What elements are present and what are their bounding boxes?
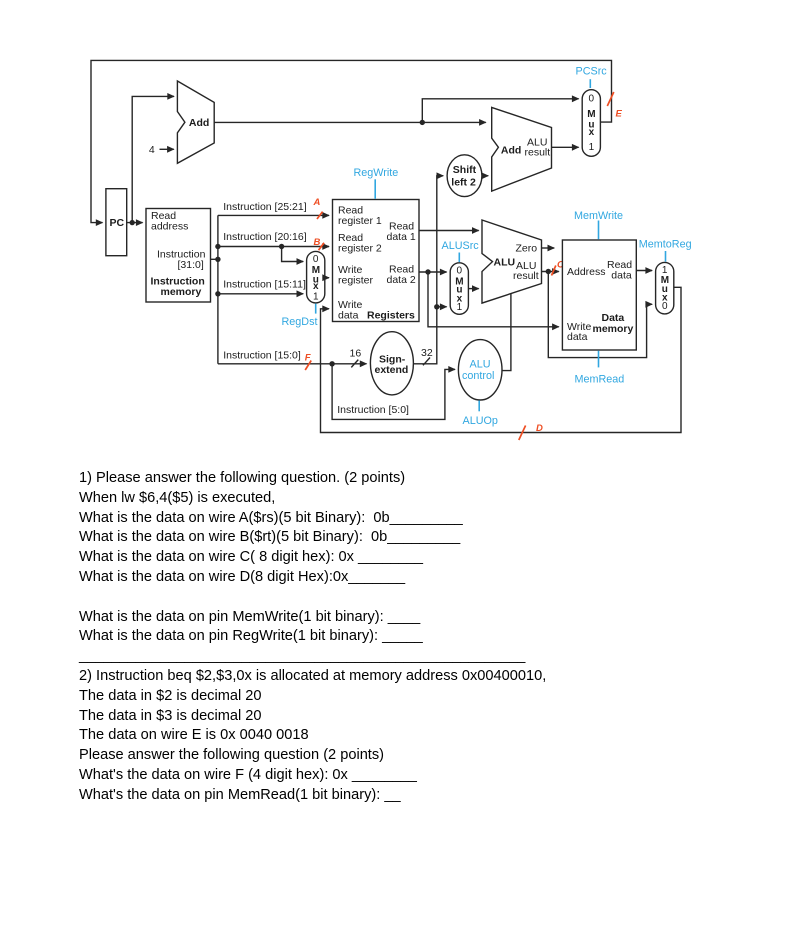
wire PC output to instruction memory Read address: [127, 222, 143, 224]
alu ALU main: [482, 220, 542, 303]
svg-text:E: E: [616, 109, 623, 120]
wire C slash mark: [552, 266, 556, 276]
node junction Read data 2 branch: [425, 269, 430, 274]
node B label: [314, 237, 321, 248]
wire RegDst control line: [315, 304, 317, 314]
wire ALU control output to ALU: [502, 293, 511, 370]
wire Read data 1 to ALU: [419, 230, 479, 232]
node junction 15:0 branch: [329, 361, 334, 366]
node PC+4 junction: [420, 120, 425, 125]
svg-text:data 1: data 1: [387, 231, 416, 243]
node D label: [536, 423, 543, 434]
shifter Shift left 2: [447, 155, 482, 197]
wire Add output (PC+4) to branch adder: [214, 121, 486, 123]
label 16 bit width: [350, 348, 362, 368]
node F label: [305, 353, 311, 364]
svg-text:1: 1: [589, 142, 595, 153]
node junction 20:16 branch: [279, 244, 284, 249]
adder Add (PC+4): [177, 81, 214, 163]
wire ALUOp control line: [478, 401, 480, 412]
wire Instruction [5:0] to ALU control: [332, 364, 455, 420]
wire Instruction [25:21] to Read register 1: [218, 201, 329, 215]
svg-text:Add: Add: [501, 144, 521, 156]
svg-text:1: 1: [457, 302, 463, 313]
node junction on bus at 15:11 row: [215, 291, 220, 296]
wire ALUSrc mux output to ALU: [468, 288, 478, 290]
svg-text:Add: Add: [189, 117, 209, 129]
svg-text:control: control: [462, 370, 494, 382]
svg-text:M: M: [587, 109, 595, 120]
svg-text:data 2: data 2: [387, 274, 416, 286]
svg-text:Instruction [5:0]: Instruction [5:0]: [337, 404, 409, 416]
node PCSrc label: [576, 65, 608, 77]
wire MemWrite control line: [598, 221, 600, 240]
mux RegDst: [307, 251, 325, 303]
svg-text:32: 32: [421, 347, 433, 359]
wire MemtoReg mux output around bottom to Registers Write data: [321, 287, 682, 432]
wire E slash mark: [607, 92, 614, 106]
node PC output junction: [130, 220, 135, 225]
wire PC+4 up to PCSrc mux input 0: [422, 99, 578, 123]
register file Registers: [333, 200, 420, 322]
wire ALU result to data memory Address: [542, 271, 559, 273]
wire D slash mark: [519, 426, 526, 441]
svg-text:Registers: Registers: [367, 310, 415, 322]
svg-text:1: 1: [313, 292, 319, 303]
wire ALUSrc control line: [458, 253, 460, 263]
svg-text:F: F: [305, 353, 311, 364]
instruction memory: [146, 209, 211, 303]
wire B slash mark: [319, 243, 325, 250]
label 32 bit width: [421, 347, 433, 365]
wire instruction vertical bus: [217, 215, 219, 363]
svg-text:register 1: register 1: [338, 215, 382, 227]
svg-text:ALU: ALU: [470, 359, 491, 371]
svg-text:4: 4: [149, 144, 155, 156]
svg-text:Address: Address: [567, 266, 606, 278]
wire RegWrite control line: [374, 179, 376, 199]
mux PCSrc: [582, 90, 600, 157]
svg-text:D: D: [536, 423, 543, 434]
svg-text:memory: memory: [161, 286, 202, 298]
wire ALU result down and around to MemtoReg mux input 0: [548, 272, 652, 358]
svg-text:Instruction [25:21]: Instruction [25:21]: [223, 201, 307, 213]
svg-text:Zero: Zero: [516, 242, 538, 254]
svg-text:memory: memory: [593, 323, 634, 335]
node MemRead label: [575, 374, 625, 386]
svg-text:result: result: [525, 147, 551, 159]
wire shift-left-2 output to branch adder: [482, 175, 488, 177]
node junction on bus at 20:16 row: [215, 244, 220, 249]
wire PC-feedback from PCSrc mux output around top to PC input: [91, 60, 612, 222]
node junction sign-extend to ALUSrc mux: [434, 304, 439, 309]
wire MemtoReg control line: [665, 251, 667, 262]
svg-text:0: 0: [457, 265, 463, 276]
wire Read data to MemtoReg mux input 1: [636, 270, 652, 272]
svg-text:Instruction [15:0]: Instruction [15:0]: [223, 350, 301, 362]
node instruction bus junction: [215, 257, 220, 262]
svg-text:data: data: [567, 331, 588, 343]
node E label: [616, 109, 623, 120]
wire A slash mark: [317, 212, 323, 219]
wire Instruction [20:16] to Read register 2: [218, 231, 329, 246]
node junction ALU result: [546, 269, 551, 274]
PC register: [106, 189, 127, 256]
svg-text:x: x: [589, 127, 595, 138]
wire RegDst mux output to Write register: [325, 277, 329, 279]
node MemtoReg label: [639, 238, 692, 250]
svg-text:Instruction [15:11]: Instruction [15:11]: [223, 278, 306, 290]
node ALUSrc label: [442, 240, 480, 252]
svg-text:address: address: [151, 221, 188, 233]
svg-text:register 2: register 2: [338, 243, 382, 255]
svg-text:Shift: Shift: [453, 164, 477, 176]
wire Instruction[31:0] output stub: [211, 258, 218, 260]
svg-text:0: 0: [589, 94, 595, 105]
svg-text:B: B: [314, 237, 321, 248]
node ALUOp label: [463, 415, 498, 427]
wire Zero output stub: [542, 247, 555, 249]
wire Instruction [15:11] to RegDst mux input 1: [218, 278, 306, 293]
node MemWrite label: [574, 210, 623, 222]
sign extender Sign-extend: [370, 332, 413, 395]
svg-text:MemRead: MemRead: [575, 374, 625, 386]
svg-text:ALUSrc: ALUSrc: [442, 240, 480, 252]
svg-text:0: 0: [662, 301, 668, 312]
wire branch adder output to PCSrc mux input 1: [552, 146, 579, 148]
svg-text:PCSrc: PCSrc: [576, 65, 608, 77]
svg-text:data: data: [338, 310, 359, 322]
svg-text:extend: extend: [375, 364, 409, 376]
svg-text:x: x: [313, 281, 319, 292]
wire sign-extend output up to shift-left-2: [413, 176, 443, 364]
svg-text:MemtoReg: MemtoReg: [639, 238, 692, 250]
svg-text:A: A: [313, 197, 321, 208]
svg-text:Instruction [20:16]: Instruction [20:16]: [223, 231, 307, 243]
alu control unit: [458, 340, 502, 400]
node C label: [557, 259, 564, 270]
svg-text:ALUOp: ALUOp: [463, 415, 498, 427]
svg-text:PC: PC: [110, 217, 125, 229]
svg-text:result: result: [513, 270, 539, 282]
wire Read data 2 down to data memory Write data: [428, 272, 559, 327]
wire PCSrc control line: [589, 79, 591, 88]
svg-text:data: data: [611, 270, 632, 282]
node RegDst label: [282, 316, 318, 328]
data memory: [562, 240, 636, 350]
svg-text:register: register: [338, 275, 374, 287]
wire Instruction [15:0] to sign extend: [218, 350, 367, 364]
svg-text:[31:0]: [31:0]: [178, 259, 204, 271]
svg-text:ALU: ALU: [494, 256, 516, 268]
constant 4 input to Add: [149, 144, 174, 156]
adder Add ALU result (branch target): [492, 107, 552, 191]
wire PC value up to Add input: [132, 96, 174, 222]
svg-text:MemWrite: MemWrite: [574, 210, 623, 222]
mux MemtoReg: [656, 262, 674, 314]
svg-text:RegDst: RegDst: [282, 316, 318, 328]
node A label: [313, 197, 321, 208]
wire Read data 2 to ALUSrc mux input 0: [419, 271, 447, 273]
svg-text:RegWrite: RegWrite: [354, 167, 399, 179]
wire 20:16 branch down to RegDst mux input 0: [282, 247, 304, 262]
svg-text:0: 0: [313, 254, 319, 265]
svg-text:16: 16: [350, 348, 362, 360]
mux ALUSrc: [450, 263, 468, 315]
wire F slash mark: [305, 361, 311, 371]
svg-text:left 2: left 2: [451, 176, 476, 188]
node RegWrite label: [354, 167, 399, 179]
wire MemRead control line: [598, 351, 600, 368]
wire sign-extend tap to ALUSrc mux input 1: [437, 306, 447, 308]
